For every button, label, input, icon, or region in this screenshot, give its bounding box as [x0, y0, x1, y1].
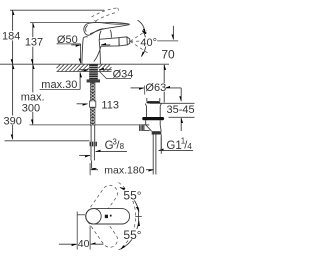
svg-text:113: 113: [101, 99, 119, 111]
svg-text:Ø50: Ø50: [57, 34, 78, 46]
svg-text:137: 137: [25, 37, 43, 49]
svg-text:40°: 40°: [140, 37, 157, 49]
svg-text:4: 4: [187, 142, 192, 151]
svg-text:35-45: 35-45: [167, 104, 195, 116]
svg-text:Ø34: Ø34: [113, 68, 134, 80]
svg-text:max.30: max.30: [41, 79, 77, 91]
svg-text:Ø63: Ø63: [145, 82, 166, 94]
svg-text:390: 390: [4, 115, 22, 127]
svg-text:40: 40: [78, 238, 90, 250]
svg-text:300: 300: [22, 103, 40, 115]
svg-text:max.180: max.180: [104, 164, 144, 176]
svg-text:G1: G1: [166, 140, 181, 152]
svg-text:70: 70: [161, 48, 175, 62]
svg-text:55°: 55°: [123, 228, 141, 242]
svg-text:184: 184: [2, 30, 20, 42]
svg-text:55°: 55°: [123, 189, 141, 203]
svg-text:8: 8: [120, 142, 125, 151]
